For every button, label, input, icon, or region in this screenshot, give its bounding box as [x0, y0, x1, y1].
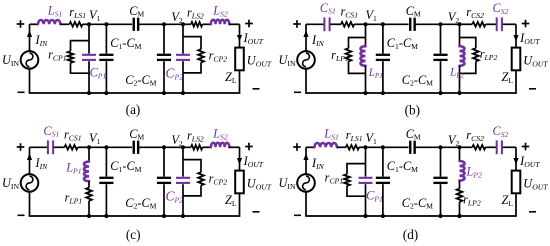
svg-text:(c): (c)	[126, 227, 141, 242]
svg-text:(a): (a)	[126, 102, 141, 117]
svg-text:(d): (d)	[403, 227, 418, 242]
svg-text:(b): (b)	[405, 103, 420, 118]
